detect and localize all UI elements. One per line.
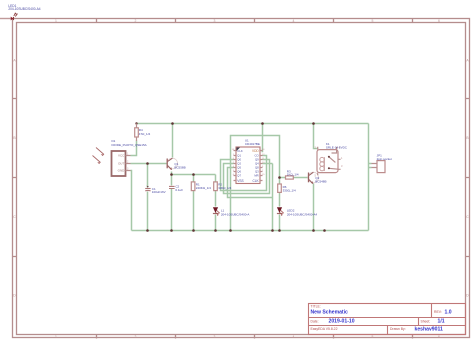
svg-text:Sheet:: Sheet: (421, 319, 431, 323)
svg-text:TITLE:: TITLE: (311, 305, 321, 309)
svg-text:3: 3 (214, 335, 216, 339)
svg-text:EasyEDA V5.8.22: EasyEDA V5.8.22 (311, 327, 338, 331)
svg-text:REV:: REV: (434, 310, 442, 314)
svg-text:204-10SUBC/S400-A: 204-10SUBC/S400-A (221, 213, 250, 217)
svg-text:47Ω_1/4: 47Ω_1/4 (139, 132, 151, 136)
svg-text:CLK: CLK (237, 149, 243, 153)
svg-text:OUT: OUT (118, 162, 125, 166)
svg-text:VCC: VCC (118, 154, 125, 158)
svg-text:5: 5 (372, 19, 374, 23)
svg-text:0.1uF: 0.1uF (175, 188, 183, 192)
svg-text:4: 4 (293, 335, 295, 339)
svg-text:keshav9011: keshav9011 (415, 327, 443, 333)
svg-text:MR: MR (254, 174, 258, 178)
svg-text:220KΩ_1/4: 220KΩ_1/4 (196, 186, 211, 190)
svg-text:GND: GND (118, 169, 126, 173)
svg-text:Q7: Q7 (237, 174, 241, 178)
svg-text:New Schematic: New Schematic (311, 310, 349, 316)
svg-text:1: 1 (55, 335, 57, 339)
svg-text:CD4017BE: CD4017BE (245, 142, 260, 146)
svg-text:1/1: 1/1 (438, 319, 445, 325)
svg-text:4: 4 (293, 19, 295, 23)
svg-text:204-10SUBC/S400-A4: 204-10SUBC/S400-A4 (287, 212, 318, 216)
svg-text:DIODE_PHOTO_QSE15A: DIODE_PHOTO_QSE15A (112, 143, 147, 147)
svg-text:2: 2 (135, 19, 137, 23)
svg-text:1KΩ_1/4: 1KΩ_1/4 (287, 172, 299, 176)
svg-text:330Ω_1/4: 330Ω_1/4 (283, 189, 296, 193)
svg-text:CLK: CLK (252, 179, 259, 183)
svg-text:2019-01-10: 2019-01-10 (329, 319, 355, 325)
svg-text:VSS: VSS (237, 179, 243, 183)
svg-text:6: 6 (438, 335, 440, 339)
svg-text:204-10SUBC/S400-A4: 204-10SUBC/S400-A4 (8, 7, 40, 11)
svg-text:3: 3 (214, 19, 216, 23)
svg-text:SRLE-14 5VDC: SRLE-14 5VDC (326, 145, 348, 149)
svg-text:100uF16V: 100uF16V (152, 190, 166, 194)
svg-text:BC548B: BC548B (315, 180, 326, 184)
svg-text:VDD: VDD (252, 149, 259, 153)
svg-text:Date:: Date: (311, 319, 319, 323)
svg-text:2: 2 (135, 335, 137, 339)
svg-text:2pin socket: 2pin socket (377, 157, 392, 161)
svg-text:BC558B: BC558B (174, 166, 185, 170)
svg-text:6: 6 (438, 19, 440, 23)
svg-text:Drawn By:: Drawn By: (390, 327, 406, 331)
svg-text:1.0: 1.0 (445, 309, 452, 315)
svg-text:330Ω_1/4: 330Ω_1/4 (218, 186, 231, 190)
svg-text:5: 5 (372, 335, 374, 339)
svg-text:1: 1 (55, 19, 57, 23)
